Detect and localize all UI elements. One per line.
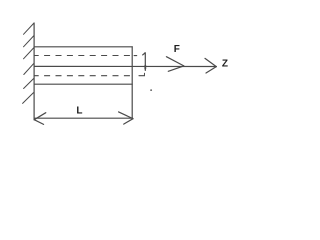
free-end tick mark (hook) — [143, 52, 146, 70]
upper dashed centerline — [34, 55, 132, 57]
wall (fixed support line) — [33, 23, 35, 120]
stray ink dot — [150, 89, 152, 91]
dimension right arrowhead upper barb — [119, 112, 133, 119]
Z axis arrowhead lower barb — [206, 67, 216, 73]
dimension line L — [34, 117, 132, 119]
beam top edge — [34, 46, 132, 48]
dimension left arrowhead upper barb — [34, 113, 46, 120]
free-end tick junction blob — [144, 66, 146, 69]
beam bottom edge — [34, 83, 132, 85]
wall hatch 4 — [24, 63, 34, 74]
wall hatch 3 — [24, 48, 35, 59]
force F arrowhead lower barb — [168, 66, 184, 71]
Z axis arrowhead upper barb — [205, 58, 216, 66]
wall hatch 6 — [23, 93, 34, 104]
dimension left arrowhead lower barb — [34, 120, 43, 125]
svg-text:L: L — [76, 106, 82, 117]
force F arrowhead upper barb — [166, 57, 183, 66]
beam axis centerline + Z axis shaft — [34, 65, 216, 67]
wall hatch 5 — [24, 78, 34, 88]
lower dashed centerline overhang dash — [139, 75, 145, 77]
svg-text:Z: Z — [222, 59, 228, 70]
beam right edge / dimension extension line — [131, 47, 133, 119]
svg-text:F: F — [174, 44, 180, 55]
wall hatch 2 — [24, 36, 35, 47]
overhang dash end tick — [143, 73, 145, 75]
dimension right arrowhead lower barb — [124, 119, 133, 124]
lower dashed centerline — [34, 75, 132, 77]
upper dashed centerline overhang dash — [134, 55, 137, 57]
wall hatch 1 — [24, 23, 35, 34]
